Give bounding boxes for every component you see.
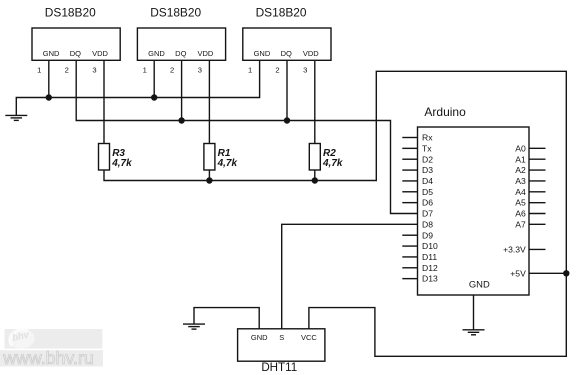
svg-text:1: 1: [143, 66, 147, 75]
svg-text:GND: GND: [469, 278, 490, 289]
svg-text:VCC: VCC: [301, 333, 317, 342]
svg-text:DHT11: DHT11: [261, 361, 297, 374]
svg-text:1: 1: [248, 66, 252, 75]
svg-text:D11: D11: [422, 252, 437, 262]
svg-text:D9: D9: [422, 230, 433, 240]
svg-text:GND: GND: [254, 49, 271, 58]
svg-text:Arduino: Arduino: [424, 105, 466, 119]
svg-text:A7: A7: [515, 219, 526, 229]
svg-text:3: 3: [92, 66, 96, 75]
svg-text:D10: D10: [422, 241, 438, 251]
svg-text:DQ: DQ: [70, 49, 81, 58]
svg-text:D6: D6: [422, 198, 433, 208]
svg-text:A1: A1: [515, 154, 526, 164]
svg-text:GND: GND: [251, 333, 268, 342]
svg-text:D3: D3: [422, 165, 433, 175]
svg-text:VDD: VDD: [197, 49, 213, 58]
svg-text:D2: D2: [422, 154, 433, 164]
svg-text:Tx: Tx: [422, 143, 432, 153]
svg-text:2: 2: [275, 66, 279, 75]
svg-text:1: 1: [37, 66, 41, 75]
svg-text:+5V: +5V: [510, 268, 526, 278]
svg-text:A5: A5: [515, 198, 526, 208]
svg-text:DS18B20: DS18B20: [256, 5, 307, 19]
svg-text:D8: D8: [422, 219, 433, 229]
svg-text:+3.3V: +3.3V: [503, 244, 526, 254]
svg-text:4,7k: 4,7k: [217, 158, 238, 169]
svg-text:DS18B20: DS18B20: [45, 5, 96, 19]
svg-text:S: S: [279, 333, 284, 342]
svg-text:D7: D7: [422, 209, 433, 219]
svg-text:D13: D13: [422, 274, 438, 284]
svg-text:A2: A2: [515, 165, 526, 175]
svg-text:VDD: VDD: [303, 49, 319, 58]
svg-text:DS18B20: DS18B20: [150, 5, 201, 19]
svg-text:DQ: DQ: [175, 49, 186, 58]
svg-text:A3: A3: [515, 176, 526, 186]
svg-text:www.bhv.ru: www.bhv.ru: [2, 348, 94, 368]
svg-text:A0: A0: [515, 143, 526, 153]
svg-text:VDD: VDD: [92, 49, 108, 58]
svg-text:3: 3: [303, 66, 307, 75]
svg-text:D5: D5: [422, 187, 433, 197]
svg-text:3: 3: [198, 66, 202, 75]
svg-text:2: 2: [170, 66, 174, 75]
svg-text:D12: D12: [422, 263, 438, 273]
svg-text:4,7k: 4,7k: [111, 158, 132, 169]
svg-text:D4: D4: [422, 176, 433, 186]
svg-text:GND: GND: [43, 49, 60, 58]
svg-text:A4: A4: [515, 187, 526, 197]
svg-text:GND: GND: [148, 49, 165, 58]
svg-text:2: 2: [65, 66, 69, 75]
svg-text:Rx: Rx: [422, 133, 433, 143]
svg-text:DQ: DQ: [281, 49, 292, 58]
svg-text:A6: A6: [515, 209, 526, 219]
svg-text:4,7k: 4,7k: [322, 158, 343, 169]
